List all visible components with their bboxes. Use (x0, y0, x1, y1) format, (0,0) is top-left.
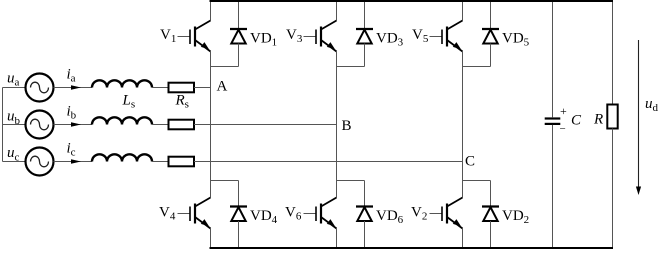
wire phase a (54, 87, 93, 89)
transistor V5 (430, 21, 463, 52)
diode VD2 (482, 207, 499, 222)
svg-text:−: − (560, 123, 566, 135)
wire phase c (54, 161, 93, 163)
node B label (342, 118, 352, 134)
wire capacitor branch bottom (552, 125, 554, 247)
wire diode lead to junction leg3 (490, 44, 492, 67)
inductor Ls phase c (92, 154, 152, 161)
svg-text:B: B (342, 118, 352, 134)
wire c resistor to node (194, 161, 463, 163)
node C label (465, 154, 475, 170)
wire source uc stub (3, 161, 26, 163)
label VD3 (376, 31, 404, 49)
wire diode lead to junction leg2 (364, 44, 366, 67)
label ud (645, 96, 658, 114)
transistor V3 (304, 21, 337, 52)
wire diode branch top leg2 (364, 2, 366, 28)
node A label (217, 79, 228, 95)
AC source uc (26, 148, 54, 176)
capacitor plus sign (560, 104, 567, 118)
label V2 (411, 205, 427, 223)
diode VD4 (230, 207, 247, 222)
AC source ua (26, 74, 54, 102)
wire diode branch bottom leg1 (238, 181, 240, 206)
wire capacitor branch top (552, 2, 554, 117)
wire bottom connector leg2 (337, 180, 365, 182)
voltage arrow ud (636, 40, 641, 195)
label VD1 (250, 31, 277, 49)
label V5 (412, 27, 429, 45)
resistor Rs phase a (169, 83, 195, 93)
transistor V4 (178, 198, 211, 229)
wire leg2 collector lead top (336, 2, 338, 21)
wire bottom DC rail (210, 247, 614, 249)
svg-text:C: C (571, 113, 582, 129)
wire leg1 emitter lead bottom (210, 229, 212, 248)
wire diode lead to junction leg1 (238, 44, 240, 67)
wire diode lead to rail leg1 (238, 221, 240, 247)
label V3 (286, 27, 303, 45)
diode VD3 (356, 29, 373, 44)
current arrow ib (71, 122, 81, 126)
wire source ub stub (3, 124, 26, 126)
wire c inductor to resistor (152, 161, 169, 163)
label V6 (285, 205, 302, 223)
svg-text:A: A (217, 79, 228, 95)
wire load branch bottom (612, 129, 614, 248)
wire left bus (2, 88, 4, 162)
transistor V2 (430, 198, 463, 229)
wire b inductor to resistor (152, 124, 169, 126)
diode VD1 (230, 29, 247, 44)
wire diode branch bottom leg2 (364, 181, 366, 206)
wire top connector leg2 (337, 66, 365, 68)
diode VD5 (482, 29, 499, 44)
wire leg3 collector lead top (462, 2, 464, 21)
svg-text:R: R (593, 112, 603, 128)
wire leg1 mid (210, 52, 212, 198)
wire diode branch bottom leg3 (490, 181, 492, 206)
wire a resistor to node (194, 87, 211, 89)
label VD6 (376, 208, 404, 226)
svg-text:+: + (560, 104, 567, 118)
inductor Ls phase b (92, 117, 152, 124)
wire diode lead to rail leg2 (364, 221, 366, 247)
wire top connector leg1 (211, 66, 239, 68)
wire diode lead to rail leg3 (490, 221, 492, 247)
transistor V1 (178, 21, 211, 52)
label V4 (159, 205, 176, 223)
diode VD6 (356, 207, 373, 222)
label ua (7, 70, 20, 88)
wire b resistor to node (194, 124, 337, 126)
label R (593, 112, 603, 128)
wire leg3 mid (462, 52, 464, 198)
capacitor minus sign (560, 123, 566, 135)
label VD4 (250, 208, 278, 226)
wire top connector leg3 (463, 66, 491, 68)
wire bottom connector leg3 (463, 180, 491, 182)
svg-text:C: C (465, 154, 475, 170)
resistor R (607, 105, 617, 129)
transistor V6 (304, 198, 337, 229)
label ia (67, 67, 76, 85)
wire diode branch top leg1 (238, 2, 240, 28)
resistor Rs phase b (169, 120, 195, 130)
wire leg2 mid (336, 52, 338, 198)
label VD2 (502, 208, 529, 226)
label ib (67, 104, 77, 122)
wire leg1 collector lead top (210, 2, 212, 21)
label Rs (175, 93, 189, 111)
AC source ub (26, 111, 54, 139)
label V1 (160, 27, 176, 45)
label uc (7, 145, 20, 163)
current arrow ic (71, 159, 81, 163)
wire diode branch top leg3 (490, 2, 492, 28)
capacitor C (545, 119, 561, 124)
wire leg2 emitter lead bottom (336, 229, 338, 248)
label ic (67, 141, 76, 159)
wire leg3 emitter lead bottom (462, 229, 464, 248)
label VD5 (502, 31, 530, 49)
wire a inductor to resistor (152, 87, 169, 89)
label ub (7, 109, 21, 127)
wire bottom connector leg1 (211, 180, 239, 182)
wire top DC rail (210, 0, 614, 2)
label C (571, 113, 582, 129)
label Ls (122, 93, 136, 111)
inductor Ls phase a (92, 80, 152, 87)
wire source ua stub (3, 87, 26, 89)
wire phase b (54, 124, 93, 126)
wire load branch top (612, 2, 614, 105)
current arrow ia (71, 85, 81, 89)
resistor Rs phase c (169, 157, 195, 167)
